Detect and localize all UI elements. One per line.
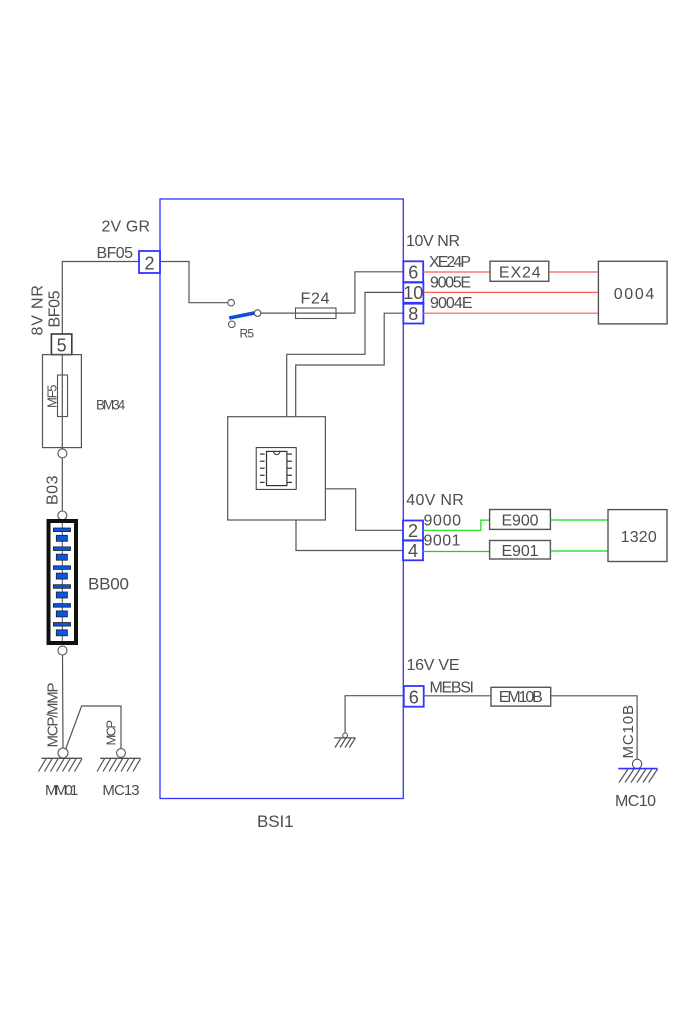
- svg-text:B03: B03: [45, 475, 62, 505]
- svg-text:EM10B: EM10B: [499, 689, 543, 706]
- connector E900: [490, 510, 551, 530]
- battery BB00 outline: [49, 521, 77, 643]
- svg-text:16V VE: 16V VE: [407, 657, 460, 674]
- IC pins left: [260, 454, 265, 482]
- red wire pin8 to 0004: [423, 312, 598, 314]
- IC outer frame: [256, 448, 296, 490]
- wire IC block to pin 4 (40V): [296, 520, 403, 551]
- red wire EX24 to 0004: [549, 271, 599, 273]
- IC notch: [274, 451, 280, 454]
- pin 2 (40V) of BSI1: [403, 521, 423, 541]
- ground node MC10: [632, 759, 641, 768]
- connector EM10B: [491, 687, 551, 706]
- component 1320: [608, 510, 667, 562]
- IC body: [267, 451, 287, 485]
- svg-text:6: 6: [408, 263, 418, 283]
- ground node MM01: [58, 748, 68, 758]
- ground MC10 (blue bar): [618, 768, 657, 770]
- IC block box: [228, 417, 326, 520]
- svg-text:BSI1: BSI1: [257, 812, 294, 831]
- svg-text:1320: 1320: [621, 529, 657, 546]
- svg-text:9005E: 9005E: [430, 275, 471, 292]
- connector EX24: [490, 261, 549, 281]
- fuse F24: [296, 308, 337, 319]
- svg-text:MEBSI: MEBSI: [430, 680, 475, 697]
- internal ground node: [343, 733, 348, 738]
- svg-text:BF05: BF05: [97, 245, 134, 262]
- pin 6 (MEBSI) of BSI1: [404, 686, 424, 707]
- pin 2 of BSI1: [139, 251, 160, 273]
- pin 6 of BSI1: [403, 261, 423, 282]
- svg-text:9000: 9000: [424, 512, 462, 529]
- wire pin 8 to IC block: [296, 313, 404, 416]
- IC pins right: [287, 454, 292, 482]
- svg-text:10: 10: [403, 283, 423, 303]
- switch R5 contact (pivot): [229, 321, 236, 328]
- ground MC13: [100, 757, 140, 759]
- svg-text:9001: 9001: [424, 532, 461, 549]
- svg-text:BF05: BF05: [47, 290, 64, 327]
- fuse box BM34: [43, 355, 82, 448]
- component 0004: [598, 261, 667, 324]
- green wire pin4 to E901: [423, 551, 490, 553]
- red wire pin10 to 0004: [423, 291, 598, 293]
- svg-text:R5: R5: [240, 327, 255, 341]
- wire pin 6 to internal ground: [345, 696, 404, 733]
- wire IC block to pin 2 (40V): [325, 489, 403, 531]
- green wire E901 to 1320: [550, 550, 608, 552]
- svg-text:8V NR: 8V NR: [30, 285, 47, 336]
- svg-text:9004E: 9004E: [430, 295, 473, 312]
- pin 10 of BSI1: [403, 283, 423, 303]
- svg-text:5: 5: [57, 336, 67, 356]
- wire F24 to pin 6: [336, 272, 403, 313]
- switch R5 contact (incoming): [228, 299, 235, 306]
- svg-text:10V NR: 10V NR: [406, 233, 460, 250]
- svg-text:E900: E900: [502, 513, 539, 530]
- switch R5 contact (output): [254, 310, 261, 317]
- red wire pin6 to EX24: [423, 271, 490, 273]
- svg-text:4: 4: [408, 541, 418, 561]
- fuse MF5: [58, 375, 68, 417]
- internal ground symbol: [334, 738, 355, 748]
- svg-text:40V NR: 40V NR: [406, 492, 464, 509]
- svg-text:MC10: MC10: [615, 793, 656, 810]
- green wire E900 to 1320: [550, 519, 608, 521]
- svg-text:XE24P: XE24P: [429, 254, 471, 271]
- switch R5 blade (blue): [229, 313, 257, 319]
- svg-text:2: 2: [144, 254, 154, 274]
- ground MM01: [42, 757, 83, 759]
- ECU box BSI1: [160, 199, 403, 799]
- svg-text:MCP: MCP: [104, 720, 119, 746]
- svg-text:MM01: MM01: [45, 782, 78, 799]
- wire BF05 from pin 2 to connector 5: [62, 262, 139, 335]
- connector 5: [51, 334, 71, 355]
- wire EM10B to MC10 ground: [551, 696, 637, 759]
- svg-text:2: 2: [408, 521, 418, 541]
- svg-text:MC13: MC13: [102, 782, 139, 799]
- wire inside BSI1 from pin 2 to switch R5: [161, 262, 228, 303]
- svg-text:2V GR: 2V GR: [102, 219, 151, 236]
- connector E901: [490, 541, 551, 560]
- node below battery: [58, 646, 67, 655]
- pin 8 of BSI1: [403, 304, 423, 324]
- wire pin 6 to EM10B: [424, 695, 491, 697]
- wire pin 10 to IC block: [287, 292, 404, 416]
- green wire pin2 to E900: [423, 520, 490, 530]
- svg-text:EX24: EX24: [499, 265, 541, 282]
- battery internal wire: [61, 523, 63, 641]
- svg-text:BB00: BB00: [88, 575, 129, 594]
- svg-text:E901: E901: [502, 543, 539, 560]
- svg-text:MCP/MMP: MCP/MMP: [45, 683, 62, 748]
- wire through BM34: [61, 355, 63, 512]
- battery plates: [53, 528, 70, 636]
- node above battery: [58, 511, 67, 520]
- pin 4 (40V) of BSI1: [403, 541, 423, 561]
- svg-text:6: 6: [409, 687, 419, 707]
- node under BM34: [58, 449, 67, 458]
- svg-text:0004: 0004: [614, 286, 655, 303]
- ground node MC13: [117, 749, 126, 758]
- svg-text:8: 8: [408, 304, 418, 324]
- svg-text:F24: F24: [301, 291, 330, 308]
- wire MM01 to MC13 (diagonal branch): [66, 706, 122, 750]
- svg-text:MC10B: MC10B: [620, 705, 637, 759]
- wire switch to fuse F24: [261, 312, 296, 314]
- svg-text:BM34: BM34: [96, 398, 126, 413]
- wire battery to MM01 ground: [62, 655, 65, 748]
- svg-text:MF5: MF5: [45, 385, 60, 409]
